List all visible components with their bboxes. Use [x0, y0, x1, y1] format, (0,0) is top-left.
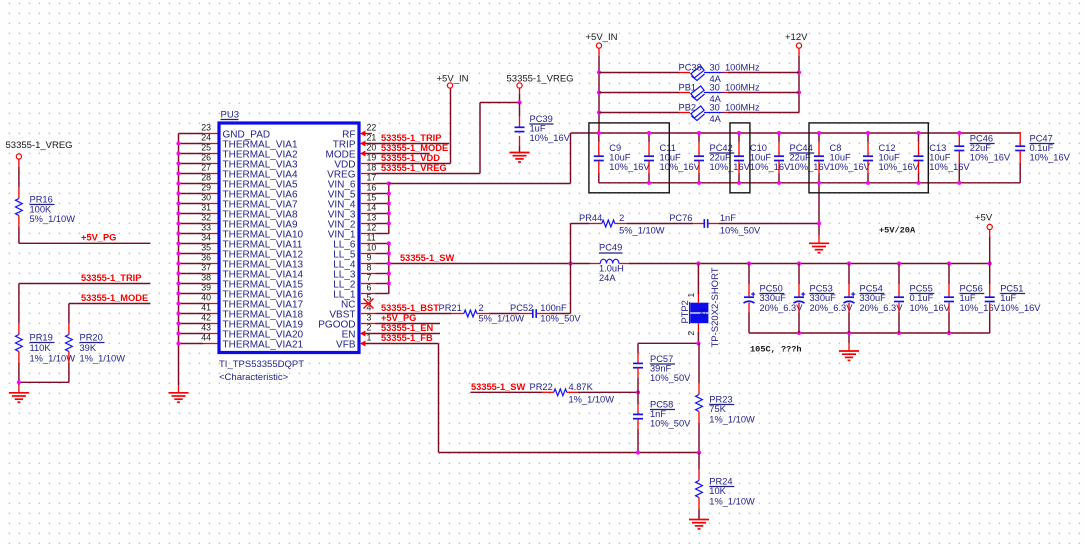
- svg-text:10%_16V: 10%_16V: [960, 303, 1001, 313]
- PU3 right pin 17 VIN_6: [328, 172, 377, 190]
- PU3 left pin 27 THERMAL_VIA4: [201, 162, 298, 180]
- junction dot FB bus bottom: [636, 450, 640, 454]
- wire: net +5V_PG from pin 3: [376, 323, 441, 325]
- svg-text:10uF: 10uF: [609, 153, 631, 163]
- svg-text:THERMAL_VIA21: THERMAL_VIA21: [223, 340, 304, 351]
- svg-text:1nF: 1nF: [720, 213, 736, 223]
- PU3 left pin 44 THERMAL_VIA21: [201, 332, 303, 350]
- net label 53355-1_SW: [400, 253, 454, 263]
- capacitor PC53: [794, 264, 854, 334]
- wire: input cap bank GND rail: [599, 182, 1020, 184]
- junction dots VIN bus: [387, 181, 391, 225]
- svg-text:1uF: 1uF: [1000, 293, 1016, 303]
- svg-text:17: 17: [367, 172, 377, 182]
- PU3 reference designator: [221, 110, 239, 121]
- svg-text:2: 2: [619, 213, 624, 223]
- svg-text:53355-1_SW: 53355-1_SW: [400, 253, 454, 263]
- capacitor PC52: [510, 303, 581, 324]
- junction dot at ground drop: [817, 221, 821, 225]
- svg-text:PC56: PC56: [960, 284, 983, 294]
- svg-text:22uF: 22uF: [970, 143, 992, 153]
- svg-text:PR44: PR44: [579, 213, 602, 223]
- svg-text:2: 2: [367, 322, 372, 332]
- svg-text:18: 18: [367, 162, 377, 172]
- ground symbol below PC39: [510, 153, 530, 162]
- svg-text:10%_16V: 10%_16V: [530, 133, 571, 143]
- net label 53355-1_MODE: [381, 143, 448, 153]
- svg-text:13: 13: [367, 212, 377, 222]
- svg-text:PC50: PC50: [760, 284, 783, 294]
- ground symbol left column: [9, 393, 29, 402]
- wire: PC52 up to SW node: [550, 264, 571, 314]
- svg-text:PR21: PR21: [439, 303, 462, 313]
- wire: net 53355-1_VREG pin 18 up to VREG port node: [376, 103, 520, 174]
- svg-text:PR20: PR20: [80, 333, 103, 343]
- svg-text:C10: C10: [750, 143, 767, 153]
- resistor PR22: [530, 382, 615, 404]
- svg-text:75K: 75K: [709, 404, 726, 414]
- PU3 right pin 7 LL_2: [333, 272, 375, 290]
- junction dots input rail bottom: [647, 181, 962, 185]
- node junction at VREG port: [517, 100, 521, 104]
- svg-text:10%_16V: 10%_16V: [750, 162, 791, 172]
- capacitor PC58: [633, 392, 691, 452]
- svg-text:1%_1/10W: 1%_1/10W: [569, 394, 615, 404]
- svg-text:1.0uH: 1.0uH: [599, 264, 624, 274]
- PU3 left pin 31 THERMAL_VIA8: [201, 202, 298, 220]
- wire: LL pins bus: [376, 244, 389, 294]
- svg-text:PR24: PR24: [709, 477, 732, 487]
- junction dot PR23 bottom: [697, 450, 701, 454]
- svg-text:3: 3: [367, 312, 372, 322]
- PU3 left pin 29 THERMAL_VIA6: [201, 182, 298, 200]
- svg-text:PU3: PU3: [221, 110, 239, 121]
- power port +5V_IN (left): [437, 74, 469, 89]
- junction dots on +5V rail: [696, 261, 992, 265]
- svg-text:PC49: PC49: [599, 243, 622, 253]
- svg-text:10%_16V: 10%_16V: [1000, 303, 1041, 313]
- PU3 left pin 25 THERMAL_VIA2: [201, 142, 298, 160]
- svg-text:0.1uF: 0.1uF: [910, 293, 934, 303]
- wire: net +5V_PG (left): [19, 242, 151, 244]
- ground symbol below PU3 left bus: [169, 393, 189, 402]
- svg-text:PB1: PB1: [679, 83, 697, 93]
- junction dot SW snubber branch: [568, 261, 572, 265]
- PU3 left pin 41 THERMAL_VIA18: [201, 302, 303, 320]
- net label 53355-1_BST: [381, 303, 439, 313]
- svg-text:PC38: PC38: [679, 63, 702, 73]
- power port +5V: [975, 213, 993, 264]
- svg-text:14: 14: [367, 202, 377, 212]
- PU3 right pin 19 VDD: [334, 152, 376, 170]
- ferrite bead PC38: [599, 63, 799, 84]
- svg-text:PC42: PC42: [710, 143, 733, 153]
- svg-text:11: 11: [367, 232, 376, 242]
- ground symbol below PR24: [689, 520, 709, 529]
- capacitor C13: [914, 133, 971, 183]
- junction dots on +12V column: [797, 70, 801, 94]
- group box around C10: [730, 123, 750, 193]
- svg-text:4.87K: 4.87K: [569, 382, 594, 392]
- PU3 left pin 40 THERMAL_VIA17: [201, 292, 303, 310]
- wire: net 53355-1_FB from pin 1 down to divider: [366, 344, 699, 453]
- svg-text:100K: 100K: [30, 204, 53, 214]
- resistor PR19: [15, 284, 75, 383]
- svg-text:30_100MHz: 30_100MHz: [710, 63, 760, 73]
- svg-text:+5V/20A: +5V/20A: [879, 225, 916, 235]
- svg-text:53355-1_BST: 53355-1_BST: [381, 303, 439, 313]
- svg-text:PC39: PC39: [530, 114, 553, 124]
- ground symbol output bank: [839, 351, 859, 360]
- net label 53355-1_TRIP (left): [81, 273, 141, 283]
- capacitor PC55: [894, 264, 951, 334]
- capacitor PC47: [1015, 132, 1070, 183]
- svg-text:10%_16V: 10%_16V: [609, 162, 650, 172]
- resistor PR23: [696, 343, 755, 452]
- svg-text:10%_16V: 10%_16V: [910, 303, 951, 313]
- svg-text:53355-1_EN: 53355-1_EN: [381, 323, 433, 333]
- net label +5V_PG (left): [81, 233, 116, 243]
- PU3 left pin 34 THERMAL_VIA11: [201, 232, 303, 250]
- svg-text:+5V_IN: +5V_IN: [586, 32, 618, 43]
- svg-text:53355-1_TRIP: 53355-1_TRIP: [81, 273, 141, 283]
- svg-text:C13: C13: [929, 143, 946, 153]
- wire: +5V_IN input rail (VIN to cap bank): [389, 133, 1020, 184]
- label +5V/20A: [879, 225, 916, 235]
- svg-text:20%_6.3V: 20%_6.3V: [860, 303, 904, 313]
- svg-text:PC76: PC76: [669, 213, 692, 223]
- svg-text:22: 22: [367, 122, 377, 132]
- net label 53355-1_VDD: [381, 153, 440, 163]
- svg-text:24A: 24A: [599, 273, 616, 283]
- svg-text:PB2: PB2: [679, 103, 697, 113]
- svg-text:16: 16: [367, 182, 377, 192]
- net label 53355-1_MODE (left): [81, 293, 148, 303]
- junction dot at left ground: [17, 380, 21, 384]
- ground symbol input bank: [809, 243, 829, 252]
- PU3 right pin 3 PGOOD: [318, 312, 375, 330]
- junction dot TP pin2: [696, 341, 700, 345]
- capacitor PC42: [694, 133, 751, 183]
- PU3 left pin 24 THERMAL_VIA1: [201, 132, 298, 150]
- PU3 right pin 11 LL_6: [333, 232, 375, 250]
- wire: output cap bank GND rail: [749, 332, 990, 334]
- svg-text:PR23: PR23: [709, 395, 732, 405]
- PU3 right pin 13 VIN_2: [328, 212, 377, 230]
- svg-text:2: 2: [686, 331, 696, 336]
- PU3 right pin 12 VIN_1: [328, 222, 377, 240]
- power port +12V: [785, 32, 808, 113]
- svg-text:<Characteristic>: <Characteristic>: [219, 372, 289, 383]
- junction dots LL bus: [387, 241, 391, 285]
- svg-text:7: 7: [367, 272, 372, 282]
- svg-text:53355-1_VDD: 53355-1_VDD: [381, 153, 440, 163]
- svg-text:C9: C9: [609, 143, 621, 153]
- svg-text:1%_1/10W: 1%_1/10W: [709, 497, 755, 507]
- svg-text:+5V_PG: +5V_PG: [381, 313, 416, 323]
- svg-text:105C, ???h: 105C, ???h: [750, 345, 802, 355]
- svg-text:VFB: VFB: [336, 340, 356, 351]
- wire: PC76 to input ground drop: [719, 223, 819, 225]
- junction dots on left ground bus: [176, 141, 180, 345]
- svg-text:9: 9: [367, 252, 372, 262]
- net label 53355-1_SW (PR22): [471, 382, 525, 392]
- net label 53355-1_EN: [381, 323, 433, 333]
- PU3 right pin 4 VBST: [329, 302, 375, 320]
- svg-text:20%_6.3V: 20%_6.3V: [810, 303, 854, 313]
- PU3 left pin 26 THERMAL_VIA3: [201, 152, 298, 170]
- svg-text:PR22: PR22: [530, 382, 553, 392]
- junction dots on +5V_IN column: [597, 70, 601, 114]
- inductor PC49: [590, 243, 629, 284]
- svg-text:10K: 10K: [709, 486, 726, 496]
- PU3 left pin 33 THERMAL_VIA10: [201, 222, 303, 240]
- svg-text:10uF: 10uF: [830, 153, 852, 163]
- svg-text:10%_50V: 10%_50V: [650, 419, 691, 429]
- capacitor PC57: [633, 343, 691, 392]
- svg-text:10uF: 10uF: [750, 153, 772, 163]
- svg-text:10uF: 10uF: [929, 153, 951, 163]
- net label 53355-1_VREG: [381, 163, 447, 173]
- PU3 left pin 38 THERMAL_VIA15: [201, 272, 303, 290]
- ferrite bead PB2: [599, 103, 799, 124]
- capacitor PC39: [515, 103, 571, 153]
- PU3 right pin 22 RF: [342, 122, 376, 140]
- svg-text:23: 23: [201, 122, 211, 132]
- svg-text:TP-S20X2-SHORT: TP-S20X2-SHORT: [710, 267, 721, 347]
- svg-text:53355-1_VREG: 53355-1_VREG: [6, 140, 73, 151]
- svg-text:10%_16V: 10%_16V: [970, 153, 1011, 163]
- PU3 left pin 36 THERMAL_VIA13: [201, 252, 303, 270]
- wire: output GND drop: [848, 333, 850, 351]
- svg-text:C12: C12: [879, 143, 896, 153]
- svg-text:+12V: +12V: [785, 32, 808, 43]
- svg-text:10uF: 10uF: [660, 153, 682, 163]
- svg-text:PC51: PC51: [1000, 284, 1023, 294]
- test point PTP2: [680, 264, 721, 348]
- wire: net 53355-1_TRIP from pin 21: [366, 143, 449, 145]
- capacitor PC50: [744, 264, 804, 334]
- svg-text:53355-1_FB: 53355-1_FB: [381, 333, 433, 343]
- capacitor PC51: [985, 264, 1042, 334]
- svg-text:30_100MHz: 30_100MHz: [710, 83, 760, 93]
- PU3 right pin 18 VREG: [327, 162, 376, 180]
- svg-text:53355-1_SW: 53355-1_SW: [471, 382, 525, 392]
- svg-text:10: 10: [367, 242, 377, 252]
- PU3 right pin 16 VIN_5: [328, 182, 377, 200]
- PU3 left pin 23 GND_PAD: [201, 122, 270, 140]
- svg-text:PTP2: PTP2: [680, 300, 690, 323]
- svg-text:1%_1/10W: 1%_1/10W: [80, 354, 126, 364]
- svg-text:1%_1/10W: 1%_1/10W: [709, 415, 755, 425]
- svg-text:10%_16V: 10%_16V: [830, 162, 871, 172]
- svg-text:53355-1_TRIP: 53355-1_TRIP: [381, 133, 441, 143]
- wire: PR19/PR20 bottoms to ground: [19, 382, 69, 393]
- svg-text:30_100MHz: 30_100MHz: [710, 103, 760, 113]
- svg-text:12: 12: [367, 222, 377, 232]
- svg-text:C11: C11: [660, 143, 676, 153]
- wire: SW snubber branch up: [570, 224, 572, 264]
- wire: net 53355-1_MODE from pin 20: [366, 153, 430, 155]
- svg-text:PC58: PC58: [650, 400, 673, 410]
- capacitor C11: [644, 133, 701, 183]
- svg-text:PC52: PC52: [510, 303, 533, 313]
- PU3 right pin 8 LL_3: [333, 262, 375, 280]
- group box around C8 C12 C13: [809, 123, 928, 193]
- PU3 left pin 39 THERMAL_VIA16: [201, 282, 303, 300]
- PU3 right pin 21 TRIP: [333, 132, 377, 150]
- resistor PR16: [15, 159, 75, 243]
- PU3 right pin 20 MODE: [326, 142, 377, 160]
- PU3 part number label: [219, 359, 304, 370]
- svg-text:10%_50V: 10%_50V: [540, 314, 581, 324]
- resistor PR44: [571, 213, 665, 236]
- svg-text:10%_16V: 10%_16V: [660, 162, 701, 172]
- net label 53355-1_FB: [381, 333, 433, 343]
- PU3 right pin 5 NC: [341, 292, 371, 310]
- wire: net 53355-1_SW to inductor: [389, 263, 590, 265]
- svg-text:21: 21: [699, 307, 708, 316]
- svg-text:TI_TPS53355DQPT: TI_TPS53355DQPT: [219, 359, 304, 370]
- svg-text:C8: C8: [830, 143, 842, 153]
- wire: input GND rail drop to ground: [818, 183, 820, 244]
- wire: +5V output rail: [629, 263, 990, 265]
- svg-text:22uF: 22uF: [790, 153, 812, 163]
- svg-text:100nF: 100nF: [540, 303, 567, 313]
- svg-text:4A: 4A: [710, 114, 722, 124]
- capacitor PC44: [774, 133, 831, 183]
- svg-text:5%_1/10W: 5%_1/10W: [479, 314, 525, 324]
- svg-text:PC46: PC46: [970, 134, 993, 144]
- svg-text:1: 1: [686, 293, 696, 298]
- svg-text:+5V_PG: +5V_PG: [81, 233, 116, 243]
- net label +5V_PG (pin 3): [381, 313, 416, 323]
- svg-text:10%_16V: 10%_16V: [790, 162, 831, 172]
- svg-text:PC55: PC55: [910, 284, 933, 294]
- PU3 right pin 9 LL_4: [333, 252, 375, 270]
- power port +5V_IN (top): [586, 32, 618, 133]
- svg-text:39nF: 39nF: [650, 364, 672, 374]
- group box around C9 C11: [589, 123, 669, 193]
- no-connect X on pin 5 NC: [364, 299, 374, 309]
- svg-text:PC53: PC53: [810, 284, 833, 294]
- svg-text:1uF: 1uF: [530, 124, 546, 134]
- capacitor PC54: [844, 264, 904, 334]
- svg-text:0.1uF: 0.1uF: [1030, 143, 1054, 153]
- svg-text:110K: 110K: [30, 343, 52, 353]
- power port 53355-1_VREG (top): [507, 74, 574, 103]
- PU3 right pin 10 LL_5: [333, 242, 376, 260]
- svg-text:10%_16V: 10%_16V: [1030, 153, 1071, 163]
- svg-text:15: 15: [367, 192, 377, 202]
- capacitor PC76: [669, 213, 761, 235]
- net label 53355-1_TRIP: [381, 133, 441, 143]
- PU3 left pin 28 THERMAL_VIA5: [201, 172, 298, 190]
- resistor PR20: [66, 304, 126, 383]
- junction dot SW at LL bus: [387, 261, 391, 265]
- PU3 left pin 30 THERMAL_VIA7: [201, 192, 298, 210]
- svg-text:5%_1/10W: 5%_1/10W: [619, 225, 665, 235]
- svg-text:1nF: 1nF: [650, 409, 666, 419]
- svg-text:53355-1_MODE: 53355-1_MODE: [81, 293, 148, 303]
- wire: net 53355-1_TRIP (left): [19, 283, 151, 285]
- capacitor PC56: [944, 264, 1001, 334]
- svg-text:20%_6.3V: 20%_6.3V: [760, 303, 804, 313]
- wire: net 53355-1_EN from pin 2: [366, 333, 440, 335]
- svg-text:22uF: 22uF: [710, 153, 732, 163]
- svg-text:10uF: 10uF: [879, 153, 901, 163]
- svg-text:2: 2: [479, 303, 484, 313]
- svg-text:10%_50V: 10%_50V: [720, 225, 761, 235]
- svg-text:39K: 39K: [80, 343, 97, 353]
- label 105C ???h: [750, 345, 802, 355]
- svg-text:6: 6: [367, 282, 372, 292]
- wire: PU3 left pins ground bus: [179, 134, 204, 393]
- svg-text:+5V: +5V: [975, 213, 993, 224]
- wire: net 53355-1_MODE (left): [69, 303, 150, 305]
- svg-text:21: 21: [367, 132, 377, 142]
- svg-text:+5V_IN: +5V_IN: [437, 74, 469, 85]
- wire: TP pin2 to feedback bus: [638, 342, 698, 344]
- svg-text:PC54: PC54: [860, 284, 883, 294]
- svg-text:PC47: PC47: [1030, 134, 1053, 144]
- PU3 right pin 6 LL_1: [333, 282, 375, 300]
- svg-text:1uF: 1uF: [960, 293, 976, 303]
- svg-text:53355-1_VREG: 53355-1_VREG: [507, 74, 574, 85]
- wire: PR22 to PC57/PC58 bus: [578, 391, 638, 393]
- PU3 left pin 35 THERMAL_VIA12: [201, 242, 303, 260]
- PU3 left pin 43 THERMAL_VIA20: [201, 322, 303, 340]
- svg-text:330uF: 330uF: [760, 293, 787, 303]
- svg-text:8: 8: [367, 262, 372, 272]
- PU3 right pin 2 EN: [342, 322, 372, 340]
- capacitor C10: [734, 133, 791, 183]
- capacitor C8: [814, 133, 871, 183]
- svg-text:10%_16V: 10%_16V: [929, 162, 970, 172]
- svg-text:PR16: PR16: [30, 195, 53, 205]
- PU3 characteristic label: [219, 372, 289, 383]
- wire: net 53355-1_SW to PR22: [470, 391, 542, 393]
- svg-text:5%_1/10W: 5%_1/10W: [30, 214, 76, 224]
- svg-text:PC57: PC57: [650, 354, 673, 364]
- junction dots input rail top: [597, 131, 962, 135]
- wire: net 53355-1_BST pin 4 to PR21: [376, 313, 452, 315]
- svg-text:10%_16V: 10%_16V: [879, 162, 920, 172]
- ferrite bead PB1: [599, 83, 799, 104]
- svg-text:330uF: 330uF: [810, 293, 837, 303]
- PU3 right pin 1 VFB: [336, 332, 371, 350]
- PU3 left pin 32 THERMAL_VIA9: [201, 212, 298, 230]
- resistor PR24: [696, 453, 755, 520]
- capacitor C12: [863, 133, 920, 183]
- wire: PR21 to PC52: [489, 313, 519, 315]
- wire: net 53355-1_VDD pin 19 up to +5V_IN port: [376, 88, 451, 163]
- PU3 right pin 15 VIN_4: [328, 192, 377, 210]
- power port 53355-1_VREG (left): [6, 140, 73, 159]
- capacitor C9: [594, 133, 651, 183]
- wire: VIN pins bus: [376, 184, 389, 234]
- svg-text:330uF: 330uF: [860, 293, 887, 303]
- PU3 left pin 37 THERMAL_VIA14: [201, 262, 303, 280]
- resistor PR21: [439, 303, 525, 324]
- capacitor PC46: [954, 132, 1011, 183]
- PU3 right pin 14 VIN_3: [328, 202, 377, 220]
- PU3 left pin 42 THERMAL_VIA19: [201, 312, 303, 330]
- op-amp/IC U-PU3 body: [219, 123, 359, 353]
- svg-text:PR19: PR19: [30, 333, 53, 343]
- svg-text:53355-1_VREG: 53355-1_VREG: [381, 163, 447, 173]
- junction dot PR22 at bus: [636, 390, 640, 394]
